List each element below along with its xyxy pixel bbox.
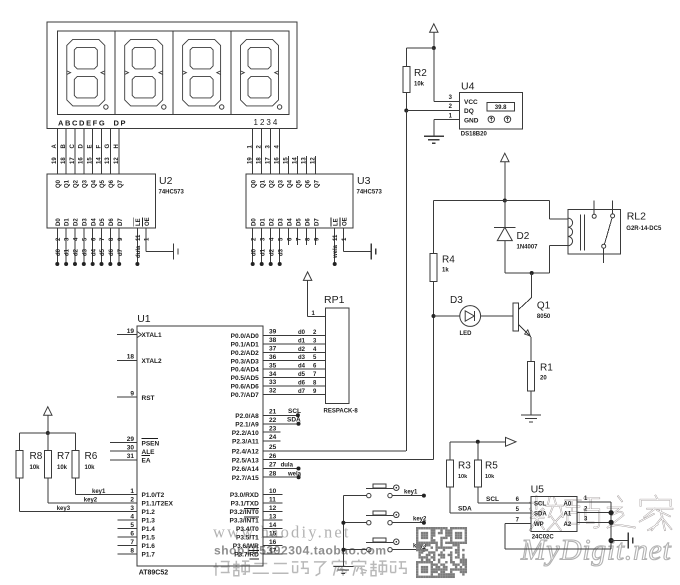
svg-text:D7: D7 — [314, 218, 320, 226]
svg-text:P1.2: P1.2 — [142, 509, 156, 516]
svg-text:D6: D6 — [305, 218, 311, 226]
svg-text:Q1: Q1 — [260, 179, 266, 188]
svg-text:D3: D3 — [82, 218, 88, 226]
svg-text:D3: D3 — [450, 295, 463, 306]
svg-text:DQ: DQ — [464, 108, 474, 115]
svg-text:XTAL2: XTAL2 — [142, 358, 162, 365]
svg-text:Q2: Q2 — [74, 179, 80, 188]
svg-text:18: 18 — [61, 157, 67, 164]
svg-text:P2.5/A13: P2.5/A13 — [232, 457, 259, 464]
svg-text:d2: d2 — [269, 248, 275, 256]
svg-text:24: 24 — [269, 434, 277, 441]
svg-text:14: 14 — [293, 157, 299, 164]
svg-text:17: 17 — [269, 547, 277, 554]
svg-text:d4: d4 — [298, 364, 306, 370]
svg-text:3: 3 — [130, 505, 134, 512]
svg-text:D0: D0 — [56, 218, 62, 226]
svg-text:9: 9 — [130, 390, 134, 397]
svg-text:74HC573: 74HC573 — [357, 190, 383, 196]
svg-text:16: 16 — [79, 157, 85, 164]
svg-text:RP1: RP1 — [324, 294, 345, 306]
svg-text:key2: key2 — [413, 517, 427, 523]
svg-text:27: 27 — [269, 462, 277, 469]
svg-text:G2R-14-DC5: G2R-14-DC5 — [626, 226, 662, 232]
svg-text:15: 15 — [269, 530, 277, 537]
svg-text:P0.3/AD3: P0.3/AD3 — [231, 358, 260, 365]
svg-text:8050: 8050 — [537, 314, 551, 320]
svg-text:d1: d1 — [65, 248, 71, 256]
svg-text:R8: R8 — [30, 451, 43, 462]
svg-text:11: 11 — [136, 234, 142, 241]
svg-text:B: B — [61, 144, 67, 149]
svg-text:P2.0/A8: P2.0/A8 — [235, 413, 259, 420]
svg-text:16: 16 — [269, 539, 277, 546]
svg-text:Q0: Q0 — [251, 179, 257, 188]
svg-text:R1: R1 — [540, 363, 553, 374]
svg-text:P3.2/INT0: P3.2/INT0 — [230, 509, 260, 516]
svg-text:16: 16 — [275, 157, 281, 164]
svg-text:12: 12 — [114, 157, 120, 164]
svg-text:D2: D2 — [269, 218, 275, 226]
svg-text:P0.0/AD0: P0.0/AD0 — [231, 333, 260, 340]
svg-text:1N4007: 1N4007 — [517, 245, 539, 251]
svg-text:19: 19 — [52, 157, 58, 164]
svg-text:D4: D4 — [287, 218, 293, 226]
svg-text:19: 19 — [248, 157, 254, 164]
svg-text:d6: d6 — [109, 248, 115, 256]
svg-text:38: 38 — [269, 337, 277, 344]
svg-text:P2.3/A11: P2.3/A11 — [232, 439, 259, 446]
svg-text:d5: d5 — [100, 248, 106, 256]
svg-text:d5: d5 — [298, 372, 306, 378]
svg-text:P1.1/T2EX: P1.1/T2EX — [142, 501, 174, 508]
svg-text:18: 18 — [127, 354, 135, 361]
svg-text:13: 13 — [105, 157, 111, 164]
svg-text:U2: U2 — [159, 175, 173, 187]
svg-text:D2: D2 — [74, 218, 80, 226]
svg-text:18: 18 — [257, 157, 263, 164]
svg-text:d3: d3 — [298, 355, 306, 361]
svg-text:LED: LED — [460, 331, 473, 337]
svg-text:P0.1/AD1: P0.1/AD1 — [231, 341, 260, 348]
svg-text:7: 7 — [130, 539, 134, 546]
svg-text:U4: U4 — [461, 81, 475, 93]
svg-text:P0.5/AD5: P0.5/AD5 — [231, 375, 260, 382]
svg-text:Q3: Q3 — [278, 179, 284, 188]
svg-text:Q5: Q5 — [296, 179, 302, 188]
svg-text:d0: d0 — [298, 330, 306, 336]
svg-text:d0: d0 — [251, 248, 257, 256]
svg-text:6: 6 — [130, 530, 134, 537]
svg-text:P1.7: P1.7 — [142, 552, 156, 559]
svg-text:E: E — [87, 144, 93, 148]
svg-text:39: 39 — [269, 329, 277, 336]
svg-text:D2: D2 — [517, 231, 530, 242]
svg-text:28: 28 — [269, 470, 277, 477]
svg-text:Q6: Q6 — [305, 179, 311, 188]
svg-text:d0: d0 — [56, 248, 62, 256]
svg-text:d2: d2 — [298, 347, 306, 353]
svg-text:P3.6/WR: P3.6/WR — [233, 543, 259, 550]
svg-text:SDA: SDA — [458, 506, 472, 513]
svg-text:37: 37 — [269, 345, 277, 352]
svg-text:D4: D4 — [91, 218, 97, 226]
svg-text:1: 1 — [130, 488, 134, 495]
svg-text:dula: dula — [136, 245, 142, 258]
svg-text:R5: R5 — [485, 461, 498, 472]
svg-text:PSEN: PSEN — [142, 440, 160, 447]
svg-text:15: 15 — [87, 157, 93, 164]
svg-text:VCC: VCC — [464, 99, 478, 106]
svg-text:11: 11 — [269, 496, 276, 503]
svg-text:23: 23 — [269, 425, 277, 432]
svg-text:R2: R2 — [414, 68, 427, 79]
svg-text:31: 31 — [127, 453, 135, 460]
svg-text:DP: DP — [114, 118, 128, 127]
svg-text:P3.1/TXD: P3.1/TXD — [231, 501, 259, 508]
svg-text:12: 12 — [311, 157, 317, 164]
svg-text:A1: A1 — [564, 511, 572, 517]
svg-text:24C02C: 24C02C — [532, 535, 555, 541]
svg-text:36: 36 — [269, 354, 277, 361]
svg-text:P2.7/A15: P2.7/A15 — [232, 475, 259, 482]
svg-text:F: F — [96, 145, 102, 149]
svg-text:A0: A0 — [564, 501, 572, 507]
svg-text:d3: d3 — [82, 248, 88, 256]
svg-text:P0.7/AD7: P0.7/AD7 — [231, 392, 260, 399]
svg-text:11: 11 — [333, 234, 339, 241]
svg-text:34: 34 — [269, 371, 277, 378]
svg-text:SCL: SCL — [486, 496, 499, 503]
svg-text:10k: 10k — [485, 474, 495, 480]
svg-text:XTAL1: XTAL1 — [142, 332, 162, 339]
svg-text:H: H — [114, 144, 120, 148]
svg-text:2: 2 — [130, 496, 134, 503]
svg-text:10k: 10k — [414, 82, 425, 88]
svg-text:P3.4/T0: P3.4/T0 — [236, 526, 259, 533]
svg-text:d2: d2 — [74, 248, 80, 256]
svg-text:17: 17 — [70, 157, 76, 164]
svg-text:d3: d3 — [278, 248, 284, 256]
svg-text:RESPACK-8: RESPACK-8 — [324, 409, 359, 415]
svg-text:D1: D1 — [65, 218, 71, 226]
svg-text:LE: LE — [136, 218, 142, 226]
svg-text:wela: wela — [333, 244, 339, 259]
svg-text:SDA: SDA — [534, 511, 547, 517]
svg-text:P0.6/AD6: P0.6/AD6 — [231, 384, 260, 391]
svg-text:C: C — [70, 144, 76, 149]
svg-text:dula: dula — [281, 463, 294, 469]
svg-text:19: 19 — [127, 328, 135, 335]
svg-text:www.haodiy.net: www.haodiy.net — [213, 523, 351, 542]
svg-text:d6: d6 — [298, 380, 306, 386]
svg-text:d1: d1 — [298, 338, 306, 344]
svg-text:OE: OE — [342, 217, 348, 226]
svg-text:ABCDEFG: ABCDEFG — [58, 118, 106, 127]
svg-text:P1.4: P1.4 — [142, 526, 156, 533]
svg-text:Q6: Q6 — [109, 179, 115, 188]
svg-text:U5: U5 — [531, 484, 545, 496]
svg-text:10k: 10k — [85, 465, 96, 471]
svg-text:1234: 1234 — [254, 118, 280, 127]
svg-text:30: 30 — [127, 444, 135, 451]
svg-text:13: 13 — [302, 157, 308, 164]
svg-text:R4: R4 — [442, 255, 455, 266]
svg-text:Q1: Q1 — [537, 301, 551, 312]
svg-text:P1.6: P1.6 — [142, 543, 156, 550]
svg-text:d7: d7 — [298, 389, 306, 395]
svg-text:d7: d7 — [118, 248, 124, 256]
svg-text:G: G — [105, 144, 111, 149]
svg-text:key2: key2 — [84, 497, 98, 503]
svg-text:15: 15 — [284, 157, 290, 164]
svg-text:10k: 10k — [57, 465, 68, 471]
svg-text:D1: D1 — [260, 218, 266, 226]
svg-text:35: 35 — [269, 362, 277, 369]
svg-text:4: 4 — [130, 513, 134, 520]
svg-text:21: 21 — [269, 409, 277, 416]
svg-text:WP: WP — [534, 522, 544, 528]
svg-text:OE: OE — [145, 217, 151, 226]
svg-text:R7: R7 — [57, 451, 70, 462]
svg-text:32: 32 — [269, 388, 277, 395]
svg-text:8: 8 — [130, 547, 134, 554]
svg-text:Q4: Q4 — [287, 179, 293, 188]
svg-text:P1.3: P1.3 — [142, 518, 156, 525]
svg-text:RL2: RL2 — [627, 211, 646, 223]
svg-text:U3: U3 — [357, 175, 371, 187]
svg-text:Q4: Q4 — [91, 179, 97, 188]
svg-text:P2.6/A14: P2.6/A14 — [232, 466, 259, 473]
svg-text:key1: key1 — [404, 490, 418, 496]
svg-text:29: 29 — [127, 436, 135, 443]
svg-text:D6: D6 — [109, 218, 115, 226]
svg-text:AT89C52: AT89C52 — [139, 570, 169, 577]
svg-text:Q0: Q0 — [56, 179, 62, 188]
svg-text:R3: R3 — [458, 461, 471, 472]
svg-text:P1.5: P1.5 — [142, 535, 156, 542]
svg-text:P3.7/RD: P3.7/RD — [234, 552, 259, 559]
svg-text:D3: D3 — [278, 218, 284, 226]
svg-text:P3.5/T1: P3.5/T1 — [236, 535, 259, 542]
svg-text:P2.1/A9: P2.1/A9 — [235, 421, 259, 428]
svg-text:25: 25 — [269, 444, 277, 451]
svg-text:10k: 10k — [30, 465, 41, 471]
svg-text:SCL: SCL — [288, 408, 301, 415]
svg-text:d1: d1 — [260, 248, 266, 256]
svg-text:ALE: ALE — [142, 449, 156, 456]
svg-text:10k: 10k — [458, 474, 468, 480]
svg-text:LE: LE — [333, 218, 339, 226]
svg-text:Q7: Q7 — [314, 179, 320, 188]
svg-text:SDA: SDA — [287, 417, 301, 424]
svg-text:R6: R6 — [85, 451, 98, 462]
svg-text:A: A — [52, 144, 58, 149]
svg-text:12: 12 — [269, 505, 277, 512]
svg-text:RST: RST — [142, 395, 155, 402]
svg-text:key3: key3 — [57, 506, 71, 512]
svg-text:5: 5 — [130, 522, 134, 529]
svg-text:P2.2/A10: P2.2/A10 — [232, 430, 259, 437]
svg-text:P0.2/AD2: P0.2/AD2 — [231, 350, 260, 357]
svg-text:39.8: 39.8 — [495, 105, 507, 111]
svg-text:P0.4/AD4: P0.4/AD4 — [231, 367, 260, 374]
svg-text:10: 10 — [269, 488, 277, 495]
svg-text:A2: A2 — [564, 522, 572, 528]
svg-text:1k: 1k — [442, 268, 449, 274]
svg-text:Q3: Q3 — [82, 179, 88, 188]
svg-text:P3.0/RXD: P3.0/RXD — [230, 492, 259, 499]
svg-text:D7: D7 — [118, 218, 124, 226]
svg-text:Q5: Q5 — [100, 179, 106, 188]
svg-text:33: 33 — [269, 379, 277, 386]
svg-text:wela: wela — [287, 471, 302, 477]
svg-text:13: 13 — [269, 513, 277, 520]
svg-text:EA: EA — [142, 457, 151, 464]
svg-text:SCL: SCL — [534, 501, 546, 507]
svg-text:d4: d4 — [91, 248, 97, 256]
svg-text:14: 14 — [96, 157, 102, 164]
svg-text:Q1: Q1 — [65, 179, 71, 188]
svg-text:22: 22 — [269, 417, 277, 424]
svg-text:D5: D5 — [296, 218, 302, 226]
svg-text:20: 20 — [540, 376, 547, 382]
svg-text:key1: key1 — [92, 489, 106, 495]
svg-text:P3.3/INT1: P3.3/INT1 — [230, 518, 260, 525]
svg-text:GND: GND — [464, 117, 479, 124]
svg-text:D5: D5 — [100, 218, 106, 226]
svg-text:17: 17 — [266, 157, 272, 164]
svg-text:P1.0/T2: P1.0/T2 — [142, 492, 165, 499]
svg-text:74HC573: 74HC573 — [159, 190, 185, 196]
svg-text:D0: D0 — [251, 218, 257, 226]
svg-text:D: D — [79, 144, 85, 149]
svg-text:14: 14 — [269, 522, 277, 529]
svg-text:U1: U1 — [137, 313, 151, 325]
svg-text:Q7: Q7 — [118, 179, 124, 188]
svg-text:P2.4/A12: P2.4/A12 — [232, 449, 259, 456]
svg-text:DS18B20: DS18B20 — [461, 132, 488, 138]
svg-text:Q2: Q2 — [269, 179, 275, 188]
svg-text:26: 26 — [269, 453, 277, 460]
